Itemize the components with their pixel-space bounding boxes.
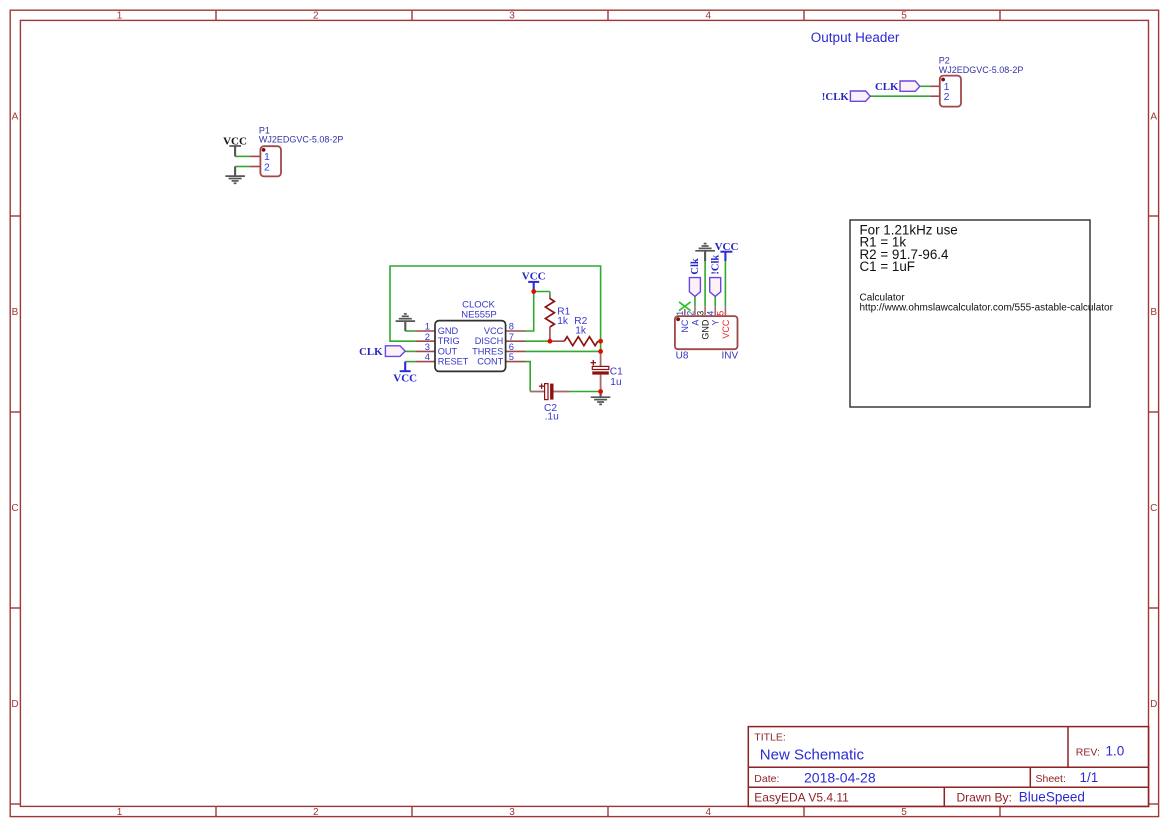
svg-text:Output Header: Output Header: [811, 30, 900, 45]
svg-text:CLK: CLK: [359, 346, 383, 358]
svg-text:4: 4: [425, 351, 430, 362]
svg-text:New Schematic: New Schematic: [760, 747, 865, 764]
svg-text:CONT: CONT: [477, 357, 503, 367]
svg-text:5: 5: [509, 351, 514, 362]
svg-text:Date:: Date:: [754, 773, 779, 785]
svg-text:GND: GND: [701, 319, 711, 340]
svg-text:2: 2: [685, 311, 695, 316]
svg-text:2: 2: [944, 91, 950, 103]
svg-text:Y: Y: [711, 320, 721, 326]
svg-text:5: 5: [901, 807, 907, 818]
svg-text:C1: C1: [610, 367, 623, 378]
svg-text:1: 1: [117, 807, 123, 818]
svg-text:3: 3: [509, 11, 515, 22]
svg-text:2: 2: [264, 162, 270, 174]
svg-text:!CLK: !CLK: [822, 91, 850, 103]
svg-text:1k: 1k: [557, 316, 569, 327]
svg-text:TITLE:: TITLE:: [754, 731, 786, 743]
svg-text:Clk: Clk: [690, 258, 701, 275]
svg-text:CLK: CLK: [875, 81, 899, 93]
svg-text:TRIG: TRIG: [438, 336, 460, 346]
svg-text:D: D: [11, 699, 18, 710]
svg-text:1k: 1k: [575, 325, 587, 336]
svg-text:2018-04-28: 2018-04-28: [804, 769, 876, 785]
svg-text:http://www.ohmslawcalculator.c: http://www.ohmslawcalculator.com/555-ast…: [860, 303, 1114, 314]
svg-text:1: 1: [675, 311, 685, 316]
svg-text:BlueSpeed: BlueSpeed: [1019, 790, 1085, 805]
svg-text:WJ2EDGVC-5.08-2P: WJ2EDGVC-5.08-2P: [939, 65, 1024, 75]
svg-text:OUT: OUT: [438, 346, 458, 356]
svg-text:C: C: [11, 503, 18, 514]
svg-text:VCC: VCC: [715, 241, 739, 253]
svg-text:Sheet:: Sheet:: [1036, 773, 1066, 785]
svg-text:NC: NC: [680, 319, 690, 332]
svg-text:B: B: [12, 307, 19, 318]
svg-text:A: A: [1150, 111, 1157, 122]
svg-text:U8: U8: [676, 350, 689, 361]
svg-text:3: 3: [509, 807, 515, 818]
svg-text:THRES: THRES: [472, 346, 503, 356]
svg-text:3: 3: [695, 311, 705, 316]
svg-text:1/1: 1/1: [1080, 770, 1099, 785]
svg-text:.1u: .1u: [545, 412, 559, 423]
svg-text:5: 5: [716, 311, 726, 316]
svg-text:1: 1: [117, 11, 123, 22]
svg-text:2: 2: [313, 807, 319, 818]
svg-text:INV: INV: [722, 350, 739, 361]
svg-text:4: 4: [706, 311, 716, 316]
svg-text:GND: GND: [438, 326, 459, 336]
svg-text:4: 4: [706, 11, 712, 22]
svg-text:C: C: [1150, 503, 1157, 514]
svg-text:EasyEDA V5.4.11: EasyEDA V5.4.11: [754, 791, 849, 805]
svg-text:VCC: VCC: [484, 326, 504, 336]
svg-text:WJ2EDGVC-5.08-2P: WJ2EDGVC-5.08-2P: [259, 135, 344, 145]
svg-text:A: A: [690, 320, 700, 326]
svg-text:1.0: 1.0: [1106, 744, 1125, 759]
svg-text:5: 5: [901, 11, 907, 22]
svg-text:VCC: VCC: [393, 372, 417, 384]
svg-text:DISCH: DISCH: [475, 336, 504, 346]
svg-text:Drawn By:: Drawn By:: [957, 791, 1012, 805]
svg-text:C1 = 1uF: C1 = 1uF: [860, 259, 915, 274]
svg-text:D: D: [1150, 699, 1157, 710]
svg-text:!Clk: !Clk: [710, 255, 721, 275]
svg-text:1u: 1u: [610, 377, 621, 388]
svg-text:NE555P: NE555P: [461, 309, 496, 320]
svg-text:B: B: [1150, 307, 1157, 318]
svg-text:VCC: VCC: [522, 271, 546, 283]
svg-text:A: A: [12, 111, 19, 122]
svg-text:2: 2: [313, 11, 319, 22]
svg-text:VCC: VCC: [721, 319, 731, 339]
svg-text:RESET: RESET: [438, 357, 469, 367]
svg-text:4: 4: [706, 807, 712, 818]
svg-text:REV:: REV:: [1076, 747, 1100, 759]
